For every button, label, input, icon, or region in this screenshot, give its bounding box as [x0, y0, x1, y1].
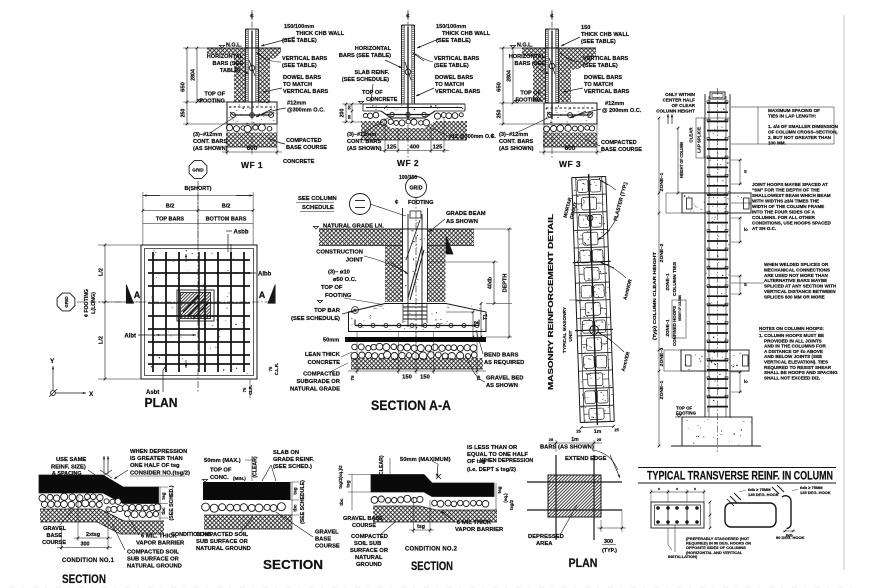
- plan footing centerline label: [84, 289, 90, 317]
- svg-text:40db: 40db: [488, 277, 494, 289]
- svg-text:INTO THE FOUR SIDES OF A: INTO THE FOUR SIDES OF A: [752, 210, 815, 215]
- masonry vertical bar: [589, 174, 598, 425]
- svg-text:50: 50: [347, 105, 351, 109]
- svg-text:(AS SHOWN): (AS SHOWN): [499, 146, 534, 152]
- WF2 gravel bed: [363, 114, 367, 118]
- svg-text:GRID: GRID: [410, 186, 423, 192]
- plan clr dims right: [268, 366, 273, 371]
- WF2 left dim 200: [345, 104, 347, 122]
- svg-text:lo: lo: [744, 227, 748, 232]
- svg-text:2xtsg: 2xtsg: [86, 532, 100, 538]
- svg-text:SUBGRADE OR: SUBGRADE OR: [297, 379, 341, 385]
- svg-text:PLAN: PLAN: [145, 395, 178, 410]
- svg-text:CONSTRUCTION: CONSTRUCTION: [316, 250, 363, 256]
- svg-text:1. 4/4 OF SMALLER DIMENSION: 1. 4/4 OF SMALLER DIMENSION: [768, 124, 839, 129]
- section column diagonal bars: [408, 246, 422, 298]
- svg-text:GRAVEL: GRAVEL: [43, 526, 66, 532]
- column outline: [704, 94, 706, 417]
- svg-text:75: 75: [268, 366, 273, 371]
- svg-text:75: 75: [350, 375, 355, 381]
- WF1 gravel bed: [227, 123, 277, 125]
- WF3 CHB wall: [545, 29, 547, 103]
- svg-text:BASE COURSE: BASE COURSE: [286, 145, 327, 151]
- svg-text:VERTICAL ELEVATION). TIES: VERTICAL ELEVATION). TIES: [764, 360, 828, 365]
- svg-text:GRID: GRID: [64, 296, 69, 308]
- plan rebar horizontals: [148, 259, 250, 261]
- svg-text:75: 75: [242, 387, 247, 392]
- svg-text:(i.e. DEPT ≤ tsg/2): (i.e. DEPT ≤ tsg/2): [467, 467, 516, 473]
- svg-text:6 MIL THICK: 6 MIL THICK: [457, 520, 492, 526]
- svg-text:125: 125: [433, 145, 443, 151]
- column ties ladder: [707, 102, 728, 104]
- svg-text:TOP BARS: TOP BARS: [156, 217, 185, 223]
- GRID bubble top of plan: [189, 161, 207, 179]
- svg-text:GROUND: GROUND: [356, 562, 382, 568]
- dp 300 dim: [600, 520, 602, 532]
- svg-text:(eq.): (eq.): [503, 493, 508, 503]
- svg-text:150/100mm: 150/100mm: [436, 24, 466, 30]
- svg-text:GRAVEL: GRAVEL: [315, 530, 339, 536]
- svg-text:DOWEL BARS: DOWEL BARS: [584, 75, 622, 81]
- svg-text:SECTION A-A: SECTION A-A: [371, 398, 451, 413]
- svg-text:SPLICED AT ANY SECTION WITH: SPLICED AT ANY SECTION WITH: [764, 284, 837, 289]
- column zone bracket boxes: [666, 193, 682, 213]
- tr column cross-section: [651, 502, 704, 528]
- svg-text:AS SHOWN: AS SHOWN: [446, 219, 478, 225]
- WF3 centerline: [551, 10, 553, 158]
- WF3 footing: [544, 103, 597, 124]
- WF3 left dim chain: [502, 48, 504, 124]
- svg-text:1m: 1m: [571, 437, 579, 443]
- section trench hatch: [385, 246, 403, 303]
- svg-text:WF 3: WF 3: [559, 159, 581, 169]
- svg-text:DOWEL BARS: DOWEL BARS: [435, 75, 473, 81]
- svg-text:CONSIDER NO.(tsg/2): CONSIDER NO.(tsg/2): [130, 471, 190, 477]
- tr cross-section right dims: [709, 502, 711, 528]
- svg-text:TOP OF: TOP OF: [362, 90, 383, 96]
- svg-text:ARE USED NOT MORE THAN: ARE USED NOT MORE THAN: [764, 273, 828, 278]
- WF2 slab on grade: [363, 103, 465, 105]
- svg-text:TABLE): TABLE): [220, 68, 240, 74]
- svg-text:LAP SPLICE: LAP SPLICE: [697, 127, 702, 153]
- svg-text:#12 @300mm O.C.: #12 @300mm O.C.: [449, 134, 496, 140]
- svg-text:tsg: tsg: [346, 480, 352, 487]
- svg-text:UNIT: UNIT: [568, 330, 574, 341]
- svg-text:A: A: [259, 290, 266, 300]
- column footing block: [682, 417, 752, 446]
- svg-text:ø50 O.C.: ø50 O.C.: [333, 277, 357, 283]
- dp bars vertical: [555, 455, 557, 540]
- svg-text:MECHANICAL CONNECTIONS: MECHANICAL CONNECTIONS: [764, 267, 830, 272]
- section footing keyway bars: [403, 306, 427, 308]
- WF1 natural grade line: [207, 47, 281, 49]
- svg-text:SUB SURFACE OR: SUB SURFACE OR: [196, 539, 249, 545]
- svg-text:BARS (SEE TABLE): BARS (SEE TABLE): [339, 53, 391, 59]
- svg-text:SOIL SUB: SOIL SUB: [354, 541, 381, 547]
- c2 gravel: [371, 497, 378, 504]
- plan section mark right: [268, 285, 275, 304]
- masonry strip outline: [572, 178, 581, 423]
- svg-text:(AS SHOWN): (AS SHOWN): [347, 146, 382, 152]
- svg-text:WIDTH OF THE COLUMN FRAME: WIDTH OF THE COLUMN FRAME: [752, 204, 824, 209]
- svg-text:COURSE: COURSE: [42, 540, 66, 546]
- svg-text:VERTICAL BARS: VERTICAL BARS: [584, 89, 630, 95]
- tr cross-section top dims: [651, 491, 704, 493]
- svg-text:COLUMN TIES: COLUMN TIES: [672, 262, 677, 296]
- svg-text:WHEN DEPRESSION: WHEN DEPRESSION: [480, 458, 533, 464]
- svg-text:CONCRETE: CONCRETE: [366, 97, 398, 103]
- svg-text:SHALL BE HOOPS AND SPACING: SHALL BE HOOPS AND SPACING: [764, 370, 838, 375]
- svg-text:COMPACTED: COMPACTED: [351, 534, 388, 540]
- svg-text:ONE HALF OF tsg: ONE HALF OF tsg: [130, 463, 180, 469]
- svg-text:TO MATCH: TO MATCH: [435, 82, 464, 88]
- svg-text:(3)–#12mm: (3)–#12mm: [347, 132, 376, 138]
- svg-text:AS SHOWN: AS SHOWN: [486, 383, 518, 389]
- svg-text:NATURAL: NATURAL: [355, 555, 383, 561]
- plan section mark left: [126, 285, 133, 304]
- svg-text:COMPACTED: COMPACTED: [303, 372, 340, 378]
- column clear/lap splice rotated: [689, 127, 694, 143]
- plan centerline vertical: [197, 181, 199, 392]
- svg-text:WF 1: WF 1: [241, 160, 263, 170]
- svg-text:(SEE TABLE): (SEE TABLE): [282, 63, 317, 69]
- svg-text:CONDITIONS, USE HOOPS SPACED: CONDITIONS, USE HOOPS SPACED: [752, 221, 831, 226]
- c2 slab black: [371, 475, 494, 497]
- masonry courses with block cells: [572, 176, 605, 177]
- depressed area plan: [527, 437, 626, 570]
- section backfill triangle: [446, 236, 453, 254]
- svg-text:CENTER HALF: CENTER HALF: [663, 98, 696, 103]
- svg-text:(SEE SCHEDULE): (SEE SCHEDULE): [342, 77, 389, 83]
- c2 clear rotated: [379, 455, 385, 477]
- svg-text:THICK CHB WALL: THICK CHB WALL: [296, 31, 345, 37]
- svg-text:@300mm O.C.: @300mm O.C.: [287, 108, 325, 114]
- svg-text:300: 300: [604, 539, 613, 545]
- svg-text:FOOTING: FOOTING: [408, 200, 433, 206]
- column centerline: [717, 88, 719, 452]
- svg-text:150: 150: [420, 375, 430, 381]
- c2 tsg dim: [413, 497, 415, 533]
- svg-text:SECTION: SECTION: [263, 558, 323, 572]
- svg-text:tsg: tsg: [497, 486, 502, 493]
- svg-text:NATURAL GROUND: NATURAL GROUND: [127, 564, 182, 570]
- svg-text:BARS (AS SHOWN): BARS (AS SHOWN): [540, 445, 594, 451]
- svg-text:SCHEDULE: SCHEDULE: [302, 205, 334, 211]
- svg-text:VAPOR BARRIER: VAPOR BARRIER: [455, 527, 504, 533]
- svg-text:25: 25: [549, 437, 554, 442]
- svg-text:650: 650: [497, 82, 503, 92]
- svg-text:COMPACTED: COMPACTED: [601, 140, 637, 146]
- svg-text:CONC.: CONC.: [210, 475, 229, 481]
- WF1 left dim chain 650/250: [186, 48, 188, 124]
- section A-A: [290, 175, 524, 413]
- svg-text:ZONE–2: ZONE–2: [659, 243, 665, 262]
- dp hatched square: [548, 475, 601, 517]
- svg-text:EXTEND EDGE: EXTEND EDGE: [565, 456, 607, 462]
- WF3 natural grade line: [522, 47, 596, 49]
- svg-text:GRAVEL BASE: GRAVEL BASE: [343, 516, 383, 522]
- svg-text:(CLEAR): (CLEAR): [379, 455, 385, 477]
- plan bar arrows: [230, 244, 232, 256]
- plan centerline horizontal: [77, 301, 276, 303]
- svg-text:WITH WIDTHS ≥3/4 TIMES THE: WITH WIDTHS ≥3/4 TIMES THE: [752, 199, 819, 204]
- s2 clear rotated: [253, 456, 259, 478]
- svg-text:BEND BARS: BEND BARS: [484, 353, 519, 359]
- svg-text:HORIZONTAL: HORIZONTAL: [207, 54, 244, 60]
- c1 slab black: [39, 475, 159, 504]
- WF1 footing: [227, 102, 277, 124]
- WF1 centerline: [251, 10, 253, 156]
- svg-text:VERTICAL DISTANCE BETWEEN: VERTICAL DISTANCE BETWEEN: [764, 289, 836, 294]
- svg-text:"SM" FOR THE DEPTH OF THE: "SM" FOR THE DEPTH OF THE: [752, 188, 820, 193]
- svg-text:R: R: [353, 308, 356, 313]
- svg-text:COMPACTED SOIL: COMPACTED SOIL: [127, 550, 180, 556]
- dp bars horizontal: [527, 481, 622, 483]
- svg-text:VERTICAL BARS: VERTICAL BARS: [282, 56, 328, 62]
- svg-text:TYPICAL MASONRY: TYPICAL MASONRY: [562, 306, 568, 353]
- svg-text:tbc: tbc: [339, 498, 345, 506]
- WF2 CHB wall: [401, 25, 403, 104]
- c1 gravel: [39, 495, 46, 502]
- svg-text:tsg: tsg: [161, 492, 167, 499]
- svg-text:FOOTING: FOOTING: [325, 293, 352, 299]
- svg-text:25: 25: [597, 437, 602, 442]
- tr crosstie: [782, 496, 791, 529]
- svg-text:T1: T1: [483, 314, 489, 320]
- svg-text:BARS (SEE: BARS (SEE: [515, 61, 546, 67]
- svg-text:HEIGHT OF COLUMN: HEIGHT OF COLUMN: [678, 295, 682, 321]
- tr cross-section leader lines: [667, 528, 669, 545]
- column beam 2: [681, 350, 749, 371]
- svg-text:BASE: BASE: [315, 537, 331, 543]
- plan Albb label: [214, 272, 256, 274]
- svg-text:MASONRY REINFORCEMENT DETAIL: MASONRY REINFORCEMENT DETAIL: [546, 213, 555, 390]
- WF1 soil hatch right: [259, 48, 282, 59]
- svg-text:HORIZONTAL: HORIZONTAL: [509, 54, 546, 60]
- condition no.1 depressed slab section: [39, 449, 190, 586]
- WF1 compacted base course: [226, 133, 277, 148]
- WF3 soil hatch mid block: [533, 56, 546, 102]
- c1 dowel arrows: [103, 456, 105, 474]
- svg-text:VERTICAL BARS: VERTICAL BARS: [283, 89, 329, 95]
- svg-text:SUB SURFACE OR: SUB SURFACE OR: [127, 557, 180, 563]
- svg-text:THICK CHB WALL: THICK CHB WALL: [581, 32, 630, 38]
- svg-text:HEIGHT OF COLUMN: HEIGHT OF COLUMN: [679, 142, 684, 178]
- svg-text:#12mm: #12mm: [287, 101, 306, 107]
- svg-text:OF CLEAR: OF CLEAR: [672, 103, 696, 108]
- WF3 compacted base course: [543, 133, 597, 148]
- svg-text:50mm: 50mm: [323, 338, 339, 344]
- svg-text:VERTICAL BARS: VERTICAL BARS: [435, 89, 481, 95]
- svg-text:SPLICES 600 MM OR MORE: SPLICES 600 MM OR MORE: [764, 294, 825, 299]
- svg-text:1. COLUMN HOOPS MUST BE: 1. COLUMN HOOPS MUST BE: [759, 333, 824, 338]
- section R bubble: [352, 307, 359, 314]
- WF1 dim 600: [226, 124, 228, 155]
- section bottom bars: [355, 325, 479, 327]
- svg-text:COMPACTED SOIL: COMPACTED SOIL: [196, 532, 249, 538]
- c2 soil hatch: [373, 506, 497, 522]
- svg-text:(Typ) COLUMN CLEAR HEIGHT: (Typ) COLUMN CLEAR HEIGHT: [652, 252, 657, 340]
- WF2 slab reinf line: [366, 107, 462, 109]
- svg-text:400: 400: [410, 145, 420, 151]
- svg-text:tsg: tsg: [293, 487, 299, 494]
- masonry 1m dim: [581, 426, 613, 427]
- c1 2xtsg dim: [77, 496, 79, 541]
- svg-text:DEPRESSED: DEPRESSED: [528, 534, 564, 540]
- dp top dim 1m: [555, 440, 557, 452]
- plan grid bubble left: [57, 293, 75, 311]
- svg-text:BARS (SEE: BARS (SEE: [213, 61, 244, 67]
- svg-text:CONCRETE: CONCRETE: [283, 159, 315, 165]
- svg-text:L/2: L/2: [99, 268, 105, 276]
- svg-text:SECTION: SECTION: [411, 559, 453, 573]
- svg-text:TOP OF: TOP OF: [321, 285, 343, 291]
- svg-text:CONDITION NO.1: CONDITION NO.1: [62, 558, 115, 564]
- typical transverse reinforcement heading: [638, 468, 836, 560]
- column top cap: [710, 92, 725, 99]
- svg-text:150: 150: [402, 375, 412, 381]
- WF3 soil hatch top band: [522, 48, 546, 56]
- s2 soil hatch: [204, 515, 292, 529]
- svg-text:SHALL NOT EXCEED D/2.: SHALL NOT EXCEED D/2.: [764, 375, 820, 380]
- svg-text:MAXIMUM SPACING OF: MAXIMUM SPACING OF: [768, 108, 820, 113]
- svg-text:SECTION: SECTION: [62, 572, 106, 586]
- svg-text:150/100mm: 150/100mm: [284, 24, 314, 30]
- WF2 wall footing detail: [339, 10, 497, 168]
- svg-text:ZONE–1: ZONE–1: [659, 380, 665, 399]
- svg-text:150: 150: [581, 25, 590, 31]
- svg-text:USE SAME: USE SAME: [56, 457, 86, 463]
- plan left dims L/2: [98, 244, 141, 246]
- svg-text:THICK CHB WALL: THICK CHB WALL: [442, 31, 491, 37]
- svg-text:A DISTANCE OF ℓo ABOVE: A DISTANCE OF ℓo ABOVE: [764, 349, 823, 354]
- svg-text:600: 600: [247, 145, 258, 152]
- svg-text:AT SH O.C.: AT SH O.C.: [752, 226, 776, 231]
- svg-text:(SEE SCHEDULE): (SEE SCHEDULE): [300, 480, 306, 524]
- svg-text:AND BELOW JOINTS (SEE: AND BELOW JOINTS (SEE: [764, 354, 822, 359]
- c1 soil hatch: [40, 509, 164, 534]
- c1 300 dim: [61, 527, 63, 550]
- condition no.2 depressed slab section: [338, 445, 533, 573]
- svg-text:VERTICAL BARS: VERTICAL BARS: [434, 56, 480, 62]
- svg-text:135 DEG. HOOK: 135 DEG. HOOK: [748, 492, 779, 497]
- svg-text:600: 600: [565, 145, 576, 152]
- svg-text:IS LESS THAN OR: IS LESS THAN OR: [467, 445, 518, 451]
- svg-text:SEE COLUMN: SEE COLUMN: [298, 196, 337, 202]
- svg-text:GRADE BEAM: GRADE BEAM: [446, 211, 486, 217]
- svg-text:2804: 2804: [191, 69, 197, 81]
- svg-text:Y: Y: [50, 358, 55, 365]
- svg-text:NATURAL GROUND: NATURAL GROUND: [196, 546, 251, 552]
- WF2 centerline: [407, 10, 409, 158]
- svg-text:L(LONG): L(LONG): [91, 292, 97, 314]
- svg-text:A: A: [134, 290, 141, 300]
- svg-text:GRAVEL BED: GRAVEL BED: [486, 376, 523, 382]
- svg-text:DOWEL BARS: DOWEL BARS: [283, 75, 321, 81]
- svg-text:JOINT: JOINT: [346, 258, 364, 264]
- svg-text:CONCRETE: CONCRETE: [307, 360, 340, 366]
- svg-text:135 DEG. HOOK: 135 DEG. HOOK: [800, 490, 831, 495]
- svg-text:Asbb: Asbb: [234, 230, 249, 236]
- svg-text:300: 300: [81, 542, 90, 548]
- svg-text:200: 200: [340, 109, 346, 118]
- svg-text:HORIZONTAL: HORIZONTAL: [355, 46, 392, 52]
- s2 slab black: [203, 482, 291, 500]
- WF3 gravel bed: [544, 123, 597, 125]
- svg-text:FOOTING: FOOTING: [676, 411, 697, 416]
- svg-text:DEPTH: DEPTH: [503, 274, 509, 293]
- svg-text:JOINT HOOPS MAYBE SPACED AT: JOINT HOOPS MAYBE SPACED AT: [752, 182, 828, 187]
- masonry horizontal bars: [573, 261, 611, 262]
- svg-text:BASE: BASE: [46, 533, 62, 539]
- section bottom dims: [356, 332, 358, 374]
- column vertical elevation detail: [652, 88, 839, 452]
- c2 left dims: [351, 475, 353, 511]
- svg-text:CLR.: CLR.: [248, 385, 253, 395]
- scan bottom edge noise: [10, 586, 860, 588]
- section natural grade hatch: [319, 229, 403, 246]
- svg-text:SLAB REINF.: SLAB REINF.: [355, 70, 390, 76]
- svg-text:#12mm: #12mm: [605, 101, 624, 107]
- svg-text:COURSE: COURSE: [315, 544, 340, 550]
- svg-text:GRID: GRID: [192, 167, 204, 172]
- svg-text:CONT. BARS: CONT. BARS: [347, 139, 381, 145]
- plan outer edge: [141, 245, 257, 379]
- plan concrete specks: [170, 335, 173, 337]
- flat slab on grade section: [171, 450, 340, 572]
- svg-text:TYPICAL TRANSVERSE REINF. IN C: TYPICAL TRANSVERSE REINF. IN COLUMN: [647, 471, 833, 483]
- svg-text:VERTICAL BARS: VERTICAL BARS: [583, 56, 629, 62]
- s2 gravel: [202, 503, 210, 511]
- svg-text:WHEN WELDED SPLICES OR: WHEN WELDED SPLICES OR: [764, 262, 829, 267]
- plan xy axis: [51, 391, 56, 396]
- masonry labels: [546, 213, 555, 390]
- svg-text:TOP OF: TOP OF: [210, 468, 232, 474]
- WF1 CHB wall: [245, 29, 247, 102]
- svg-text:X: X: [89, 391, 94, 398]
- c2 right dims: [495, 483, 497, 512]
- svg-text:TO MATCH: TO MATCH: [584, 82, 613, 88]
- plan column hatched: [177, 290, 214, 321]
- svg-text:IS GREATER THAN: IS GREATER THAN: [130, 456, 183, 462]
- svg-text:TO MATCH: TO MATCH: [283, 82, 312, 88]
- plan inner edge: [145, 249, 254, 376]
- svg-text:(SEE TABLE): (SEE TABLE): [436, 38, 471, 44]
- svg-text:50mm (MAX.): 50mm (MAX.): [204, 458, 241, 464]
- svg-text:(3)–#12mm: (3)–#12mm: [193, 132, 222, 138]
- column beam 1: [682, 193, 751, 213]
- scan fold line artifact: [843, 15, 845, 570]
- svg-text:N.G.L.: N.G.L.: [226, 43, 242, 49]
- svg-text:WF 2: WF 2: [397, 158, 419, 168]
- svg-text:¢ FOOTING: ¢ FOOTING: [84, 289, 90, 317]
- svg-text:CLEAR: CLEAR: [689, 127, 694, 143]
- svg-text:tsg/2(eq.)/2: tsg/2(eq.)/2: [338, 465, 343, 489]
- svg-text:Albb: Albb: [258, 272, 272, 278]
- s2 right dims: [291, 482, 293, 530]
- svg-text:S: S: [744, 169, 747, 174]
- svg-text:250: 250: [181, 109, 187, 118]
- svg-text:SLAB ON: SLAB ON: [273, 450, 299, 456]
- column zone labels left: [659, 172, 665, 191]
- svg-text:ZONE–1: ZONE–1: [665, 319, 670, 337]
- tr hoop: [725, 503, 776, 527]
- svg-text:(3)– ø10: (3)– ø10: [328, 270, 350, 276]
- svg-text:(SEE TABLE): (SEE TABLE): [434, 63, 469, 69]
- WF2 bottom dims 125/400/125: [384, 118, 386, 153]
- svg-text:CONDITION NO.2: CONDITION NO.2: [405, 547, 458, 553]
- svg-text:NATURAL GRADE LN.: NATURAL GRADE LN.: [323, 224, 384, 230]
